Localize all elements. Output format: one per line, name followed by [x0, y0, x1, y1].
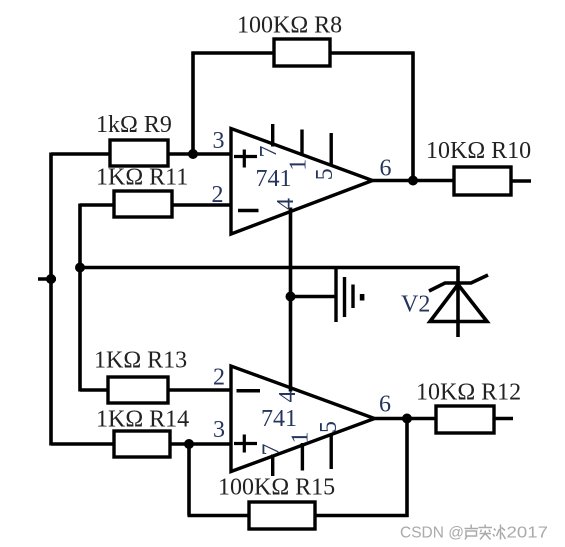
watermark hanzi glyph bing — [493, 525, 506, 540]
wire left vertical from R8 to node at pin3 — [191, 52, 195, 155]
svg-text:741: 741 — [261, 406, 297, 432]
wire feedback down from node at pin3 of U2 — [187, 444, 191, 516]
svg-text:1: 1 — [286, 159, 312, 171]
svg-text:2: 2 — [212, 182, 224, 208]
svg-text:V2: V2 — [401, 292, 430, 318]
wire R9 to pin3 of U1 — [167, 152, 231, 156]
wire bottom left to R15 — [188, 514, 251, 518]
svg-text:4: 4 — [273, 198, 299, 210]
wire R14 to pin3 of U2 — [169, 442, 231, 446]
zener diode V2 cathode bar — [429, 275, 488, 291]
wire second rail to R13 — [80, 388, 109, 392]
wire input terminal stub — [38, 277, 56, 281]
svg-text:100KΩ R8: 100KΩ R8 — [237, 13, 342, 39]
resistor R10 — [454, 167, 511, 195]
op-amp U2 pin 5 tick — [330, 434, 333, 469]
wire R13 to pin2 of U2 — [167, 388, 231, 392]
svg-text:10KΩ R12: 10KΩ R12 — [416, 380, 521, 406]
wire left input rail vertical — [49, 153, 53, 446]
svg-text:7: 7 — [259, 444, 285, 456]
wire mid horizontal rail to zener — [80, 266, 458, 270]
svg-text:6: 6 — [379, 392, 391, 418]
op-amp U1 plus input mark — [234, 150, 257, 168]
svg-text:5: 5 — [316, 421, 342, 433]
junction node at input terminal — [46, 274, 56, 284]
junction node at mid rail — [75, 263, 85, 273]
wire second rail to R11 — [80, 203, 115, 207]
svg-text:100KΩ R15: 100KΩ R15 — [218, 475, 335, 501]
junction node at ground wire — [286, 292, 296, 302]
wire R12 output stub — [493, 417, 513, 421]
zener diode V2 triangle — [430, 285, 487, 322]
wire R10 output stub — [511, 179, 532, 183]
watermark hanzi glyph yi — [479, 525, 493, 540]
wire R8 top left horizontal — [192, 51, 276, 55]
wire second rail vertical — [78, 204, 82, 392]
junction node at R9/R8 pin3 — [188, 149, 198, 159]
wire right vertical from R15 to U2 output node — [405, 419, 409, 518]
svg-text:5: 5 — [312, 168, 338, 180]
wire pin4 vertical between op-amps — [289, 208, 293, 392]
op-amp U1 triangle — [231, 129, 373, 235]
op-amp U2 minus input mark — [237, 389, 261, 393]
ground symbol — [336, 267, 353, 322]
svg-text:3: 3 — [213, 417, 225, 443]
wire right vertical from R8 to output node — [411, 52, 415, 181]
svg-text:3: 3 — [213, 128, 225, 154]
svg-text:CSDN @: CSDN @ — [400, 525, 464, 542]
op-amp U2 triangle — [231, 366, 375, 472]
svg-text:6: 6 — [380, 156, 392, 182]
wire R15 to right vertical — [314, 514, 409, 518]
op-amp U1 pin 5 tick — [330, 133, 333, 166]
op-amp U2 pin 1 tick — [301, 443, 304, 471]
wire to ground symbol — [291, 295, 337, 299]
op-amp U2 pin 7 tick — [271, 455, 274, 477]
svg-text:10KΩ R10: 10KΩ R10 — [426, 138, 531, 164]
resistor R11 — [114, 191, 172, 217]
junction node at U1 output — [408, 176, 418, 186]
resistor R8 — [274, 39, 330, 66]
svg-text:7: 7 — [256, 146, 282, 158]
resistor R9 — [110, 140, 168, 166]
svg-text:1kΩ R9: 1kΩ R9 — [96, 112, 172, 138]
op-amp U1 pin 7 tick — [271, 124, 274, 147]
svg-text:2017: 2017 — [507, 525, 549, 542]
op-amp U2 plus input mark — [234, 435, 257, 453]
wire R8 top right horizontal — [329, 51, 415, 55]
svg-text:4: 4 — [275, 391, 301, 403]
svg-text:1KΩ R11: 1KΩ R11 — [96, 165, 188, 191]
zener diode V2 lead top — [456, 266, 460, 337]
junction node at pin3 of U2 — [184, 439, 194, 449]
resistor R14 — [114, 431, 170, 457]
ground symbol small bar — [360, 294, 365, 301]
junction node at U2 output — [402, 414, 412, 424]
svg-text:1KΩ R14: 1KΩ R14 — [96, 407, 189, 433]
wire U2 output to R12 — [375, 417, 438, 421]
op-amp U1 minus input mark — [238, 209, 259, 213]
wire left rail to R14 — [51, 442, 115, 446]
wire U1 output to R10 — [373, 179, 456, 183]
wire R11 to pin2 of U1 — [171, 203, 231, 207]
resistor R12 — [436, 406, 494, 433]
resistor R15 — [249, 502, 315, 529]
resistor R13 — [108, 377, 168, 403]
svg-text:1: 1 — [288, 432, 314, 444]
watermark hanzi glyph lu — [465, 525, 479, 540]
op-amp U1 pin 1 tick — [300, 130, 303, 156]
wire input to R9 — [51, 152, 111, 156]
svg-text:1KΩ R13: 1KΩ R13 — [94, 348, 187, 374]
svg-text:2: 2 — [213, 365, 225, 391]
